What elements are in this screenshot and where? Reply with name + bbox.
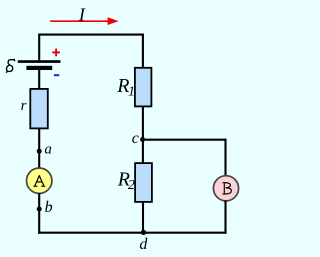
resistor r — [30, 89, 48, 128]
wire ammeter to bottom corner — [38, 193, 40, 234]
battery minus sign — [54, 74, 59, 76]
svg-text:b: b — [45, 199, 53, 216]
node a — [37, 149, 42, 154]
bottom wire — [38, 232, 226, 234]
wire R1 to R2 through node c — [142, 106, 144, 163]
ammeter A — [27, 168, 52, 193]
voltmeter B — [213, 176, 238, 201]
right branch wire lower — [224, 201, 226, 234]
wire node c to voltmeter branch — [143, 139, 227, 141]
svg-text:a: a — [44, 141, 52, 157]
svg-text:I: I — [78, 4, 86, 24]
battery plus sign — [52, 51, 60, 53]
battery EMF symbol (script E drawn as path) — [6, 60, 15, 73]
svg-text:r: r — [21, 98, 27, 114]
node b — [37, 207, 42, 212]
node d — [141, 230, 146, 235]
battery top plate (long, +) — [18, 60, 61, 63]
resistor R2 — [135, 163, 152, 202]
svg-text:2: 2 — [128, 178, 135, 193]
right branch wire upper — [224, 139, 226, 177]
current arrow I — [50, 20, 109, 22]
resistor R1 — [135, 68, 152, 107]
svg-text:c: c — [132, 130, 139, 147]
wire r to ammeter — [38, 128, 40, 168]
wire battery to resistor r — [38, 70, 40, 89]
svg-text:d: d — [139, 236, 148, 253]
node c — [140, 137, 145, 142]
wire: battery positive up and across the top to right branch — [39, 35, 143, 68]
wire R2 to node d — [142, 202, 144, 233]
svg-text:1: 1 — [128, 84, 135, 99]
battery bottom plate (short thick, -) — [26, 66, 52, 70]
